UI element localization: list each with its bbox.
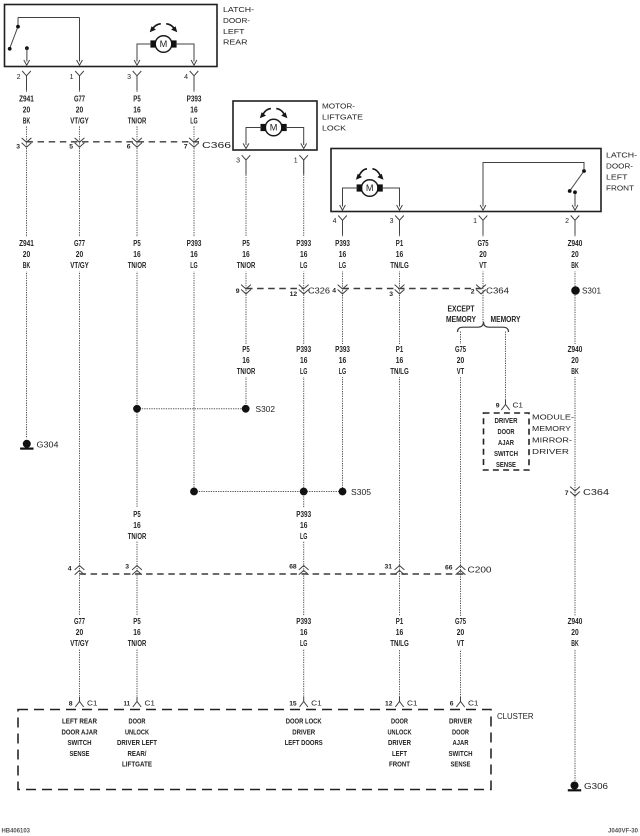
pin 1 latch rear [75,71,84,76]
svg-text:DOOR: DOOR [129,717,146,726]
svg-text:31: 31 [385,564,393,571]
svg-text:6: 6 [127,144,131,151]
svg-text:Z941: Z941 [19,95,34,104]
wire pin 1 riser (inside front box) [483,163,584,207]
svg-text:3: 3 [125,564,129,571]
svg-text:LEFT REAR: LEFT REAR [62,717,97,726]
C326 cavity 9 [241,285,251,289]
svg-text:16: 16 [396,628,404,637]
svg-text:MEMORY: MEMORY [532,424,571,433]
svg-text:20: 20 [571,250,579,259]
wire G75 20 VT memory branch (brace to module pin 9) [505,332,507,401]
svg-text:15: 15 [289,701,297,708]
svg-text:BK: BK [23,117,31,126]
wire motor to pin 3 (inside liftgate box) [246,128,262,146]
svg-text:TN/OR: TN/OR [128,639,147,648]
wire motor to pin 1 (inside liftgate box) [286,128,304,146]
svg-text:16: 16 [339,250,347,259]
svg-text:LG: LG [300,639,307,648]
svg-text:LIFTGATE: LIFTGATE [122,760,152,769]
connector C364 dashed line [343,288,482,290]
svg-text:VT: VT [457,367,464,376]
wire motor to pin 4 (inside box) [176,44,195,62]
svg-text:DRIVER: DRIVER [532,447,570,456]
svg-text:4: 4 [333,218,337,225]
svg-text:P5: P5 [242,239,250,248]
svg-text:16: 16 [300,521,308,530]
svg-text:P1: P1 [396,239,404,248]
C200 cavity 31 [395,566,405,570]
svg-text:LATCH-: LATCH- [606,151,638,160]
svg-text:P393: P393 [296,345,311,354]
cluster pin 6 C1 [460,697,462,702]
svg-text:VT/GY: VT/GY [70,261,89,270]
svg-text:P5: P5 [133,617,141,626]
svg-text:MODULE-: MODULE- [532,413,575,422]
pin 3 latch rear [133,71,142,76]
svg-text:DOOR-: DOOR- [223,16,251,25]
svg-text:16: 16 [396,356,404,365]
svg-text:P5: P5 [133,239,141,248]
svg-text:1: 1 [473,218,477,225]
C364 cavity 2 [476,285,486,289]
svg-text:DOOR: DOOR [391,717,408,726]
svg-text:P1: P1 [396,345,404,354]
svg-text:G77: G77 [74,617,86,626]
C200 cavity 3 [132,566,142,570]
ground G306 [571,782,579,790]
cluster pin 11 C1 [136,697,138,702]
svg-text:LG: LG [300,261,307,270]
svg-text:Z940: Z940 [568,345,583,354]
svg-text:16: 16 [300,356,308,365]
C200 cavity 4 [75,566,85,570]
svg-text:9: 9 [236,288,240,295]
module pin 9 C1 [505,400,507,405]
svg-text:20: 20 [571,628,579,637]
svg-text:TN/OR: TN/OR [237,261,256,270]
svg-text:16: 16 [133,250,141,259]
svg-text:C200: C200 [468,566,493,575]
svg-text:1: 1 [70,74,74,81]
svg-text:DOOR-: DOOR- [606,162,634,171]
svg-text:DOOR: DOOR [452,727,469,736]
svg-text:4: 4 [332,288,336,295]
C364 cavity 3 [395,285,405,289]
wire Z940 20 BK (latch front pin 2 to G306) [574,221,576,782]
svg-text:20: 20 [76,250,84,259]
svg-text:LEFT: LEFT [392,749,407,758]
svg-text:2: 2 [471,289,475,296]
svg-text:5: 5 [69,144,73,151]
ground G304 [23,440,31,448]
wire P1 16 TN/LG (latch front pin 3 to cluster pin 12) [399,221,401,698]
C364 cavity 7 (Z940) [570,487,580,491]
svg-text:3: 3 [389,291,393,298]
svg-text:AJAR: AJAR [498,438,514,447]
wire P393 16 LG (liftgate motor pin 1 to cluster pin 15) [303,160,305,697]
wire G77 20 VT/GY (latch rear pin 1 to cluster pin 8) [79,76,81,697]
motor M latch rear rotation arrows [153,24,161,29]
svg-text:BK: BK [571,367,579,376]
svg-text:SWITCH: SWITCH [494,449,518,458]
svg-text:M: M [270,123,278,133]
svg-text:C364: C364 [583,488,610,497]
svg-text:VT: VT [457,639,464,648]
svg-text:DRIVER: DRIVER [449,717,472,726]
pin 1 latch front [479,216,488,221]
svg-text:FRONT: FRONT [389,760,410,769]
wire P393 16 LG (latch front pin 4 to splice S305) [342,221,344,492]
splice S302 link line [137,408,246,410]
svg-text:P393: P393 [296,617,311,626]
latch-door-left-front box [331,149,601,212]
svg-text:J040VF-30: J040VF-30 [608,828,638,835]
svg-text:C1: C1 [468,699,479,708]
svg-text:C326: C326 [308,287,331,296]
svg-text:CLUSTER: CLUSTER [497,712,534,721]
cluster pin 8 C1 [79,697,81,702]
svg-text:AJAR: AJAR [453,738,469,747]
svg-text:LG: LG [190,117,197,126]
label white-outs [12,93,42,127]
svg-text:VT/GY: VT/GY [70,117,89,126]
svg-text:16: 16 [396,250,404,259]
svg-text:20: 20 [571,356,579,365]
C200 cavity 68 [299,566,309,570]
svg-text:16: 16 [133,628,141,637]
svg-text:UNLOCK: UNLOCK [125,727,149,736]
svg-text:8: 8 [69,701,73,708]
cluster box [18,710,491,790]
svg-text:20: 20 [23,106,31,115]
svg-text:LG: LG [190,261,197,270]
C366 cavity 5 [75,138,85,142]
svg-text:MIRROR-: MIRROR- [532,436,573,445]
pin 3 liftgate [242,155,251,160]
svg-text:DOOR AJAR: DOOR AJAR [62,727,98,736]
svg-text:TN/OR: TN/OR [128,532,147,541]
motor M latch front rotation arrows [359,169,367,176]
svg-text:M: M [366,183,374,193]
cluster pin 15 C1 [303,697,305,702]
svg-text:LIFTGATE: LIFTGATE [322,113,363,122]
ajar switch (latch rear) [17,18,19,27]
svg-text:DOOR: DOOR [498,427,515,436]
svg-text:20: 20 [479,250,487,259]
connector C200 dashed line [80,573,465,575]
wire G75 20 VT (latch front pin 1 to memory brace) [482,221,484,323]
wire P393 16 LG (latch rear pin 4 to splice S305) [193,76,195,492]
wire motor to pin 4 (inside front box) [343,188,358,207]
svg-text:Z940: Z940 [568,239,583,248]
svg-text:DRIVER: DRIVER [388,738,411,747]
wire P5 16 TN/OR (liftgate motor pin 3 to splice S302) [245,160,247,409]
svg-text:EXCEPT: EXCEPT [448,305,475,314]
pin 1 liftgate [299,155,308,160]
svg-text:2: 2 [17,74,21,81]
svg-text:4: 4 [184,74,188,81]
svg-text:REAR/: REAR/ [128,749,148,758]
svg-text:TN/LG: TN/LG [390,367,409,376]
pin 4 latch front [338,216,347,221]
svg-text:TN/OR: TN/OR [128,117,147,126]
svg-text:16: 16 [242,250,250,259]
svg-text:HB406103: HB406103 [2,828,31,835]
svg-text:3: 3 [236,157,240,164]
svg-text:MEMORY: MEMORY [446,315,477,324]
svg-text:C364: C364 [486,287,510,296]
svg-text:C1: C1 [513,401,524,410]
svg-text:SENSE: SENSE [451,760,471,769]
C366 cavity 3 [22,138,32,142]
svg-text:LEFT DOORS: LEFT DOORS [285,738,323,747]
svg-text:16: 16 [133,521,141,530]
splice S302 [133,405,141,413]
svg-text:16: 16 [300,250,308,259]
pin 2 latch rear [22,71,31,76]
svg-text:16: 16 [133,106,141,115]
svg-text:P393: P393 [296,239,311,248]
svg-text:P393: P393 [187,95,202,104]
svg-text:P393: P393 [335,239,350,248]
svg-text:FRONT: FRONT [606,184,634,193]
svg-text:S301: S301 [582,287,602,296]
cluster pin 12 C1 [399,697,401,702]
svg-text:G75: G75 [455,617,467,626]
svg-text:12: 12 [290,291,298,298]
svg-text:P5: P5 [133,95,141,104]
latch-door-left-rear box [5,5,218,67]
svg-text:DRIVER: DRIVER [495,416,518,425]
svg-text:C366: C366 [202,141,232,150]
splice S301 [571,286,580,295]
svg-text:16: 16 [300,628,308,637]
svg-text:11: 11 [124,701,131,708]
svg-text:LEFT: LEFT [223,27,245,36]
svg-text:3: 3 [390,218,394,225]
svg-text:REAR: REAR [223,38,248,47]
svg-text:20: 20 [76,106,84,115]
svg-text:7: 7 [184,144,188,151]
C326 cavity 12 [299,285,309,289]
wire motor to pin 3 (inside box) [137,44,152,62]
wire motor to pin 3 (inside front box) [382,188,400,207]
C366 cavity 6 [132,138,142,142]
svg-text:20: 20 [457,628,465,637]
motor-liftgate-lock box [233,101,317,150]
svg-text:G75: G75 [455,345,467,354]
svg-text:SWITCH: SWITCH [68,738,92,747]
svg-text:DRIVER: DRIVER [292,727,315,736]
splice S305 [190,488,198,496]
svg-text:C1: C1 [145,699,156,708]
svg-text:P393: P393 [335,345,350,354]
svg-text:68: 68 [289,564,297,571]
svg-text:7: 7 [565,490,569,497]
connector C366 dashed line [27,141,200,143]
svg-text:LOCK: LOCK [322,124,346,133]
svg-text:C1: C1 [87,699,98,708]
C200 cavity 66 [456,566,466,570]
svg-text:16: 16 [190,106,198,115]
svg-text:BK: BK [571,639,579,648]
svg-text:3: 3 [127,74,131,81]
svg-text:SWITCH: SWITCH [449,749,473,758]
svg-text:LEFT: LEFT [606,173,628,182]
svg-text:DOOR LOCK: DOOR LOCK [286,717,322,726]
svg-text:16: 16 [339,356,347,365]
svg-text:BK: BK [571,261,579,270]
wire P5 16 TN/OR (latch rear pin 3 to cluster pin 11) [136,76,138,697]
svg-text:P393: P393 [187,239,202,248]
svg-text:G304: G304 [37,441,60,450]
motor M liftgate rotation arrows [263,109,271,115]
wire Z941 20 BK (latch rear pin 2 to G304) [26,76,28,439]
svg-text:DRIVER LEFT: DRIVER LEFT [117,738,157,747]
memory split brace [458,322,509,332]
pin 2 latch front [571,216,580,221]
svg-text:G75: G75 [477,239,489,248]
svg-text:C1: C1 [311,699,322,708]
svg-text:6: 6 [450,701,454,708]
splice S305 link line [194,491,343,493]
pin 4 latch rear [190,71,199,76]
svg-text:LATCH-: LATCH- [223,5,255,14]
svg-text:20: 20 [457,356,465,365]
svg-text:TN/OR: TN/OR [237,367,256,376]
svg-text:TN/LG: TN/LG [390,261,409,270]
svg-text:12: 12 [385,701,393,708]
wire G75 20 VT except-memory branch (brace to cluster pin 6) [460,332,462,698]
svg-text:UNLOCK: UNLOCK [388,727,412,736]
svg-text:G77: G77 [74,239,86,248]
svg-text:M: M [160,39,168,49]
motor M latch rear [155,36,172,53]
svg-text:P5: P5 [242,345,250,354]
svg-text:1: 1 [294,157,298,164]
svg-text:3: 3 [16,144,20,151]
wire switch contact to pin 2 (inside box) [26,48,28,61]
wire switch to pin 1 (inside box) [79,18,81,62]
module-memory-mirror-driver box [484,413,530,470]
wire switch contact to pin 2 (inside front box) [574,194,576,207]
connector C326 dashed line [246,288,304,290]
svg-text:G77: G77 [74,95,86,104]
svg-text:TN/OR: TN/OR [128,261,147,270]
motor M liftgate [265,119,282,136]
C364 cavity 4 [338,285,348,289]
motor M latch front [361,180,378,197]
svg-text:LG: LG [339,367,346,376]
svg-text:9: 9 [496,403,500,410]
svg-text:Z941: Z941 [19,239,34,248]
svg-text:SENSE: SENSE [70,749,90,758]
svg-text:2: 2 [565,218,569,225]
svg-text:LG: LG [300,367,307,376]
svg-text:4: 4 [68,566,72,573]
svg-text:S302: S302 [256,405,276,414]
svg-text:P1: P1 [396,617,404,626]
svg-text:S305: S305 [351,488,372,497]
pin 3 latch front [395,216,404,221]
svg-text:P393: P393 [296,510,311,519]
svg-text:VT/GY: VT/GY [70,639,89,648]
svg-text:BK: BK [23,261,31,270]
C366 cavity 7 [189,138,199,142]
svg-text:66: 66 [445,565,453,572]
svg-text:LG: LG [300,532,307,541]
svg-text:MOTOR-: MOTOR- [322,102,356,111]
svg-text:Z940: Z940 [568,617,583,626]
svg-text:P5: P5 [133,510,141,519]
svg-text:MEMORY: MEMORY [491,315,522,324]
svg-text:C1: C1 [407,699,418,708]
svg-text:16: 16 [242,356,250,365]
svg-text:20: 20 [76,628,84,637]
ajar switch (latch front) [570,171,584,191]
svg-text:VT: VT [479,261,486,270]
svg-text:16: 16 [190,250,198,259]
svg-text:TN/LG: TN/LG [390,639,409,648]
svg-text:SENSE: SENSE [496,460,516,469]
svg-text:20: 20 [23,250,31,259]
svg-text:LG: LG [339,261,346,270]
svg-text:G306: G306 [584,782,609,791]
